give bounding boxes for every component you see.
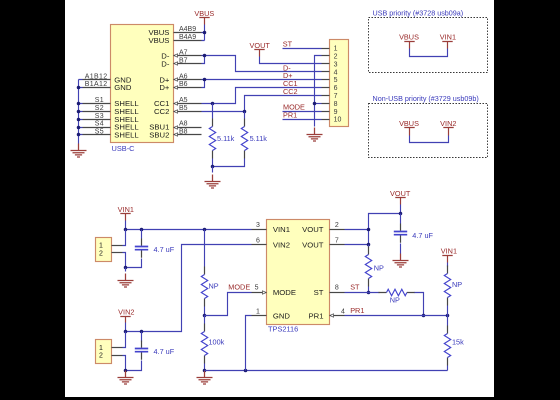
- svg-text:VBUS: VBUS: [194, 9, 214, 18]
- wire pin 8 to gnd vertical: [315, 103, 322, 105]
- svg-text:S2: S2: [95, 105, 104, 112]
- TPS2116 pin 3 (VIN1) stub: [252, 229, 267, 231]
- wire VBUS-VIN2 jumper: [410, 136, 449, 143]
- junction VIN1 NP divider: [203, 228, 207, 232]
- USB-C pin A5 (CC1) stub: [174, 103, 202, 105]
- svg-text:SHELL: SHELL: [114, 131, 139, 140]
- svg-text:B6: B6: [179, 81, 188, 88]
- svg-text:SBU2: SBU2: [149, 131, 169, 140]
- svg-text:4.7 uF: 4.7 uF: [412, 231, 433, 240]
- svg-text:VBUS: VBUS: [399, 33, 419, 42]
- junction C1 gnd node: [124, 266, 128, 270]
- svg-text:VIN2: VIN2: [440, 119, 456, 128]
- svg-text:7: 7: [335, 238, 339, 245]
- svg-text:S3: S3: [95, 113, 104, 120]
- svg-text:A4B9: A4B9: [179, 26, 196, 33]
- svg-text:1: 1: [99, 243, 103, 250]
- capacitor C2 4.7uF: [141, 332, 143, 342]
- svg-text:6: 6: [334, 85, 338, 92]
- wire VIN1 to R7: [447, 263, 449, 267]
- wire VBUS-VIN1 jumper: [410, 49, 448, 57]
- svg-text:A7: A7: [179, 50, 188, 57]
- USB-C pin B4A9 (VBUS) stub: [174, 40, 202, 42]
- USB-C pin B8 (SBU2) stub: [174, 134, 202, 136]
- svg-text:3: 3: [334, 61, 338, 68]
- header pin 9 stub: [322, 111, 330, 113]
- svg-text:VIN1: VIN1: [273, 225, 290, 234]
- svg-text:2: 2: [335, 222, 339, 229]
- svg-text:B8: B8: [179, 129, 188, 136]
- J4 pin 1 stub: [112, 347, 123, 349]
- header pin 2 stub: [322, 55, 330, 57]
- wire D+ pair link and route to header pin 5: [202, 80, 322, 88]
- junction VOUT pin2: [367, 228, 371, 232]
- svg-text:A6: A6: [179, 73, 188, 80]
- J3 pin 1 stub: [112, 245, 123, 247]
- resistor R6 NP (ST to PR1): [379, 292, 415, 294]
- TPS2116 pin 8 (ST) stub: [330, 292, 345, 294]
- svg-text:4: 4: [341, 308, 345, 315]
- junction VBUS: [203, 31, 207, 35]
- svg-text:GND: GND: [114, 83, 132, 92]
- note box: Non-USB priority: [369, 104, 488, 158]
- svg-text:D-: D-: [161, 60, 170, 69]
- junction: [77, 110, 81, 114]
- wire PR1 row: [345, 315, 448, 317]
- resistor R3 NP (VIN1 to MODE): [204, 230, 206, 267]
- wire VBUS flag to pins: [202, 25, 205, 41]
- wire bottom gnd rail: [205, 370, 448, 372]
- wire MODE divider to pin 5: [205, 293, 252, 316]
- header pin 6 stub: [322, 87, 330, 89]
- svg-text:10: 10: [334, 117, 342, 124]
- junction: [77, 133, 81, 137]
- TPS2116 pin 1 (GND) stub: [252, 315, 267, 317]
- wire VOUT to header pin 3: [260, 57, 322, 64]
- svg-text:2: 2: [99, 353, 103, 360]
- resistor R5 NP (VOUT to ST): [368, 245, 370, 248]
- svg-text:B5: B5: [179, 105, 188, 112]
- svg-text:USB-C: USB-C: [112, 144, 136, 153]
- TPS2116 pin 5 (MODE) stub: [252, 292, 267, 294]
- ground (header): [307, 128, 323, 142]
- svg-text:S1: S1: [95, 97, 104, 104]
- junction PR1/R6: [422, 314, 426, 318]
- svg-text:VOUT: VOUT: [302, 225, 324, 234]
- capacitor C1 4.7uF: [141, 230, 143, 239]
- wire TPS GND pin to rail: [246, 316, 252, 371]
- header pin 7 stub: [322, 95, 330, 97]
- svg-text:VIN2: VIN2: [118, 307, 134, 316]
- svg-text:B4A9: B4A9: [179, 34, 196, 41]
- svg-text:NP: NP: [390, 296, 400, 305]
- svg-text:CC2: CC2: [154, 107, 169, 116]
- svg-text:VOUT: VOUT: [390, 189, 411, 198]
- svg-text:D+: D+: [159, 83, 170, 92]
- wire VIN1 rail: [126, 221, 252, 230]
- wire ST to header pin 1: [283, 48, 322, 50]
- svg-text:PR1: PR1: [309, 311, 324, 320]
- svg-text:1: 1: [256, 308, 260, 315]
- resistor R4 100k (MODE to gnd): [204, 316, 206, 324]
- wire CC1 route to header pin 6: [202, 88, 322, 104]
- svg-text:2: 2: [99, 251, 103, 258]
- connector J3 (VIN1) body: [96, 238, 112, 262]
- resistor R7 NP (VIN1 to PR1): [447, 266, 449, 306]
- svg-text:5: 5: [255, 285, 259, 292]
- svg-text:A8: A8: [179, 121, 188, 128]
- svg-text:VIN1: VIN1: [440, 33, 456, 42]
- svg-text:VBUS: VBUS: [399, 119, 419, 128]
- wire J3 pin1 to VIN1: [123, 230, 126, 246]
- junction MODE divider: [203, 314, 207, 318]
- ground (VIN1 input): [125, 268, 127, 272]
- USB-C pin S2 (SHELL) stub: [83, 111, 111, 113]
- svg-text:NP: NP: [209, 281, 219, 290]
- USB-C pin B5 (CC2) stub: [174, 111, 202, 113]
- ground (VOUT cap): [393, 254, 409, 268]
- header pin 8 stub: [322, 103, 330, 105]
- svg-text:VIN2: VIN2: [273, 241, 290, 250]
- USB-C pin A6 (D+) stub: [174, 79, 202, 81]
- ground (usb-c shell): [71, 144, 87, 158]
- wire R6 to PR1 row: [415, 293, 424, 316]
- svg-text:15k: 15k: [452, 337, 464, 346]
- svg-text:NP: NP: [452, 280, 462, 289]
- USB-C pin B1A12 (GND) stub: [83, 87, 111, 89]
- TPS2116 pin 4 (PR1) stub: [330, 315, 345, 317]
- svg-text:VOUT: VOUT: [250, 41, 271, 50]
- ground (bottom rail): [197, 371, 213, 385]
- svg-text:VIN1: VIN1: [441, 247, 457, 256]
- junction header pin 8: [313, 102, 317, 106]
- svg-text:TPS2116: TPS2116: [268, 325, 298, 334]
- junction TPS gnd riser: [244, 369, 248, 373]
- J4 pin 2 stub: [112, 355, 123, 357]
- svg-text:S4: S4: [95, 121, 104, 128]
- junction C2 gnd node: [124, 369, 128, 373]
- header pin 1 stub: [322, 48, 330, 50]
- wire PR1 to header pin 10: [283, 119, 322, 121]
- svg-text:5.11k: 5.11k: [217, 134, 235, 143]
- svg-text:2: 2: [334, 54, 338, 61]
- junction: [77, 102, 81, 106]
- capacitor C3 4.7uF: [400, 214, 402, 224]
- svg-text:5.11k: 5.11k: [250, 134, 268, 143]
- USB-C pin A4B9 (VBUS) stub: [174, 32, 202, 34]
- junction CC1 / R1 top: [211, 102, 215, 106]
- resistor R8 15k (PR1 to gnd): [447, 316, 449, 326]
- USB-C pin A1B12 (GND) stub: [83, 79, 111, 81]
- svg-text:4.7 uF: 4.7 uF: [154, 347, 175, 356]
- header pin 3 stub: [322, 63, 330, 65]
- svg-text:1: 1: [99, 345, 103, 352]
- junction CC2 / R2 top: [243, 110, 247, 114]
- svg-text:8: 8: [334, 101, 338, 108]
- svg-text:ST: ST: [314, 288, 324, 297]
- svg-text:B1A12: B1A12: [85, 81, 108, 88]
- USB-C pin S4 (SHELL) stub: [83, 127, 111, 129]
- USB-C pin B6 (D+) stub: [174, 87, 202, 89]
- junction PR1 right node: [446, 314, 450, 318]
- ground (CC pulldowns): [212, 167, 214, 173]
- note box: USB priority: [369, 18, 488, 73]
- svg-text:PR1: PR1: [283, 111, 297, 120]
- header pin 4 stub: [322, 71, 330, 73]
- junction D+: [203, 78, 207, 82]
- IC U1 TPS2116 body: [267, 220, 330, 325]
- wire MODE to header pin 9: [283, 111, 322, 113]
- header pin 5 stub: [322, 79, 330, 81]
- svg-text:MODE: MODE: [228, 283, 250, 292]
- svg-text:VIN1: VIN1: [118, 205, 134, 214]
- wire VIN2 rail: [126, 245, 252, 332]
- TPS2116 pin 7 (VOUT) stub: [330, 244, 345, 246]
- svg-text:Non-USB priority (#3729 usb09b: Non-USB priority (#3729 usb09b): [373, 94, 479, 103]
- J3 pin 2 stub: [112, 252, 123, 254]
- svg-text:1: 1: [334, 46, 338, 53]
- wire ST node: [345, 292, 380, 294]
- TPS2116 pin 2 (VOUT) stub: [330, 229, 345, 231]
- resistor R1 5.11k: [212, 104, 214, 119]
- USB-C pin A7 (D-) stub: [174, 55, 202, 57]
- svg-text:NP: NP: [374, 264, 384, 273]
- USB-C pin S1 (SHELL) stub: [83, 103, 111, 105]
- svg-text:B7: B7: [179, 58, 188, 65]
- junction D-: [203, 54, 207, 58]
- resistor R2 5.11k: [244, 112, 246, 119]
- junction: [77, 126, 81, 130]
- junction resistor bottoms: [211, 165, 215, 169]
- svg-text:6: 6: [256, 238, 260, 245]
- svg-text:9: 9: [334, 109, 338, 116]
- svg-text:A1B12: A1B12: [85, 73, 108, 80]
- junction VIN2 flag: [124, 330, 128, 334]
- junction VOUT flag/cap: [399, 212, 403, 216]
- svg-text:4: 4: [334, 69, 338, 76]
- svg-text:VOUT: VOUT: [302, 241, 324, 250]
- USB-C pin A8 (SBU1) stub: [174, 127, 202, 129]
- connector J2 10-pin header body: [330, 40, 349, 127]
- svg-text:A5: A5: [179, 97, 188, 104]
- connector J1 USB-C body: [111, 25, 174, 143]
- svg-text:USB priority (#3728 usb09a): USB priority (#3728 usb09a): [373, 8, 464, 17]
- svg-text:ST: ST: [350, 283, 360, 292]
- svg-text:3: 3: [256, 222, 260, 229]
- wire CC2 route to header pin 7: [202, 96, 322, 112]
- svg-text:CC2: CC2: [283, 87, 298, 96]
- junction: [77, 118, 81, 122]
- USB-C pin B7 (D-) stub: [174, 63, 202, 65]
- svg-text:4.7 uF: 4.7 uF: [154, 245, 175, 254]
- connector J4 (VIN2) body: [96, 340, 112, 364]
- svg-text:100k: 100k: [209, 337, 225, 346]
- svg-text:GND: GND: [273, 311, 291, 320]
- svg-text:S5: S5: [95, 129, 104, 136]
- svg-text:7: 7: [334, 93, 338, 100]
- ground (VIN2 input): [118, 371, 134, 385]
- USB-C pin S5 (SHELL) stub: [83, 134, 111, 136]
- junction VIN1 cap: [140, 228, 144, 232]
- svg-text:8: 8: [335, 285, 339, 292]
- wire D- pair link and route to header pin 4: [202, 56, 322, 72]
- junction VOUT pin7: [367, 243, 371, 247]
- wire VOUT rail: [345, 205, 401, 245]
- junction ST node: [367, 291, 371, 295]
- shell/gnd bus wire: [79, 80, 83, 144]
- junction VIN2 cap: [140, 330, 144, 334]
- wire J4 pin1 to VIN2: [123, 332, 126, 348]
- header pin 10 stub: [322, 119, 330, 121]
- junction VIN1 flag: [124, 228, 128, 232]
- junction: [77, 86, 81, 90]
- svg-text:5: 5: [334, 77, 338, 84]
- USB-C pin S3 (SHELL) stub: [83, 119, 111, 121]
- wire header gnd (pins 2 and 8): [315, 56, 322, 127]
- svg-text:MODE: MODE: [273, 288, 296, 297]
- svg-text:VBUS: VBUS: [148, 36, 169, 45]
- TPS2116 pin 6 (VIN2) stub: [252, 244, 267, 246]
- wire J4 pin2 to gnd node: [123, 356, 126, 371]
- svg-text:PR1: PR1: [350, 306, 364, 315]
- junction 100k bottom / gnd rail: [203, 369, 207, 373]
- svg-text:ST: ST: [283, 39, 293, 48]
- wire J3 pin2 to gnd node: [123, 253, 126, 268]
